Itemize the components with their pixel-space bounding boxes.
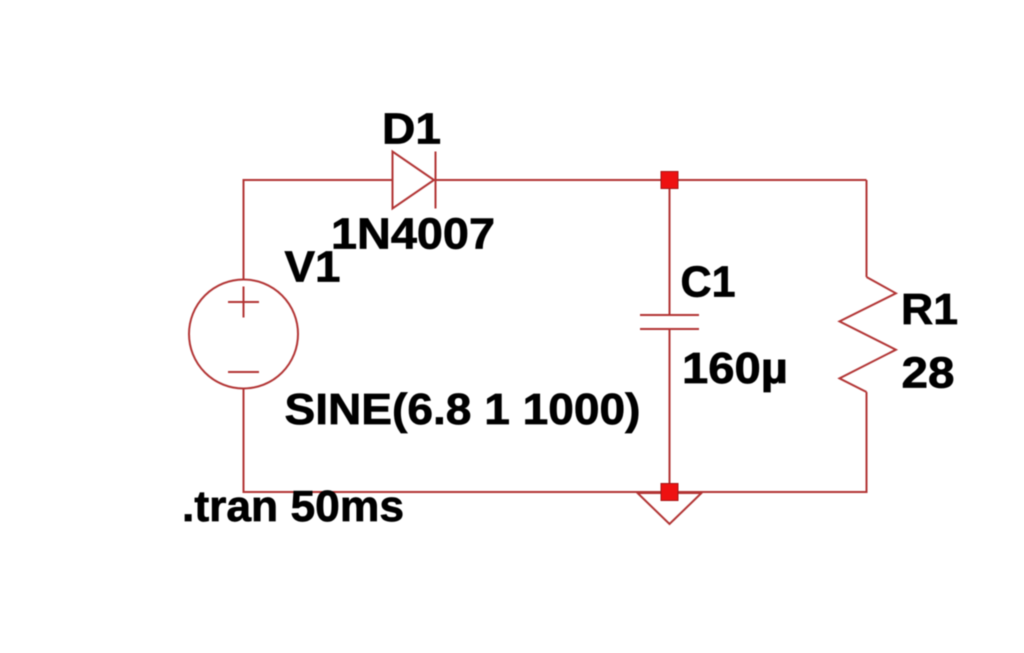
svg-text:C1: C1: [681, 258, 736, 307]
svg-text:R1: R1: [901, 285, 958, 334]
node junction bottom: [661, 484, 678, 501]
capacitor C1 bottom plate: [640, 328, 699, 330]
ground symbol: [638, 493, 702, 524]
svg-text:160µ: 160µ: [682, 344, 788, 393]
svg-text:SINE(6.8 1 1000): SINE(6.8 1 1000): [285, 385, 641, 434]
svg-text:V1: V1: [285, 243, 341, 292]
V1 minus sign: [228, 371, 259, 373]
V1 plus sign: [228, 287, 259, 318]
wire top rail left segment: [244, 179, 393, 181]
wire left rail lower: [243, 388, 245, 493]
wire left rail upper: [243, 179, 245, 280]
wire right rail lower: [866, 392, 868, 493]
wire right rail upper: [866, 180, 868, 277]
svg-text:1N4007: 1N4007: [331, 210, 495, 259]
wire capacitor bottom lead: [669, 329, 671, 492]
wire top rail right segment: [436, 179, 867, 181]
svg-text:28: 28: [902, 349, 955, 398]
diode D1 cathode bar: [435, 152, 437, 209]
node junction top: [661, 172, 678, 189]
wire bottom rail: [244, 491, 867, 493]
svg-text:.tran 50ms: .tran 50ms: [182, 482, 404, 531]
digit-1 serif feet (Verdana-style): [419, 139, 438, 144]
resistor R1 zigzag: [840, 277, 896, 392]
voltage source V1 circle: [189, 280, 298, 389]
diode D1 triangle: [393, 152, 435, 209]
capacitor C1 top plate: [640, 314, 699, 316]
svg-text:D1: D1: [382, 105, 441, 154]
wire capacitor top lead: [669, 180, 671, 315]
